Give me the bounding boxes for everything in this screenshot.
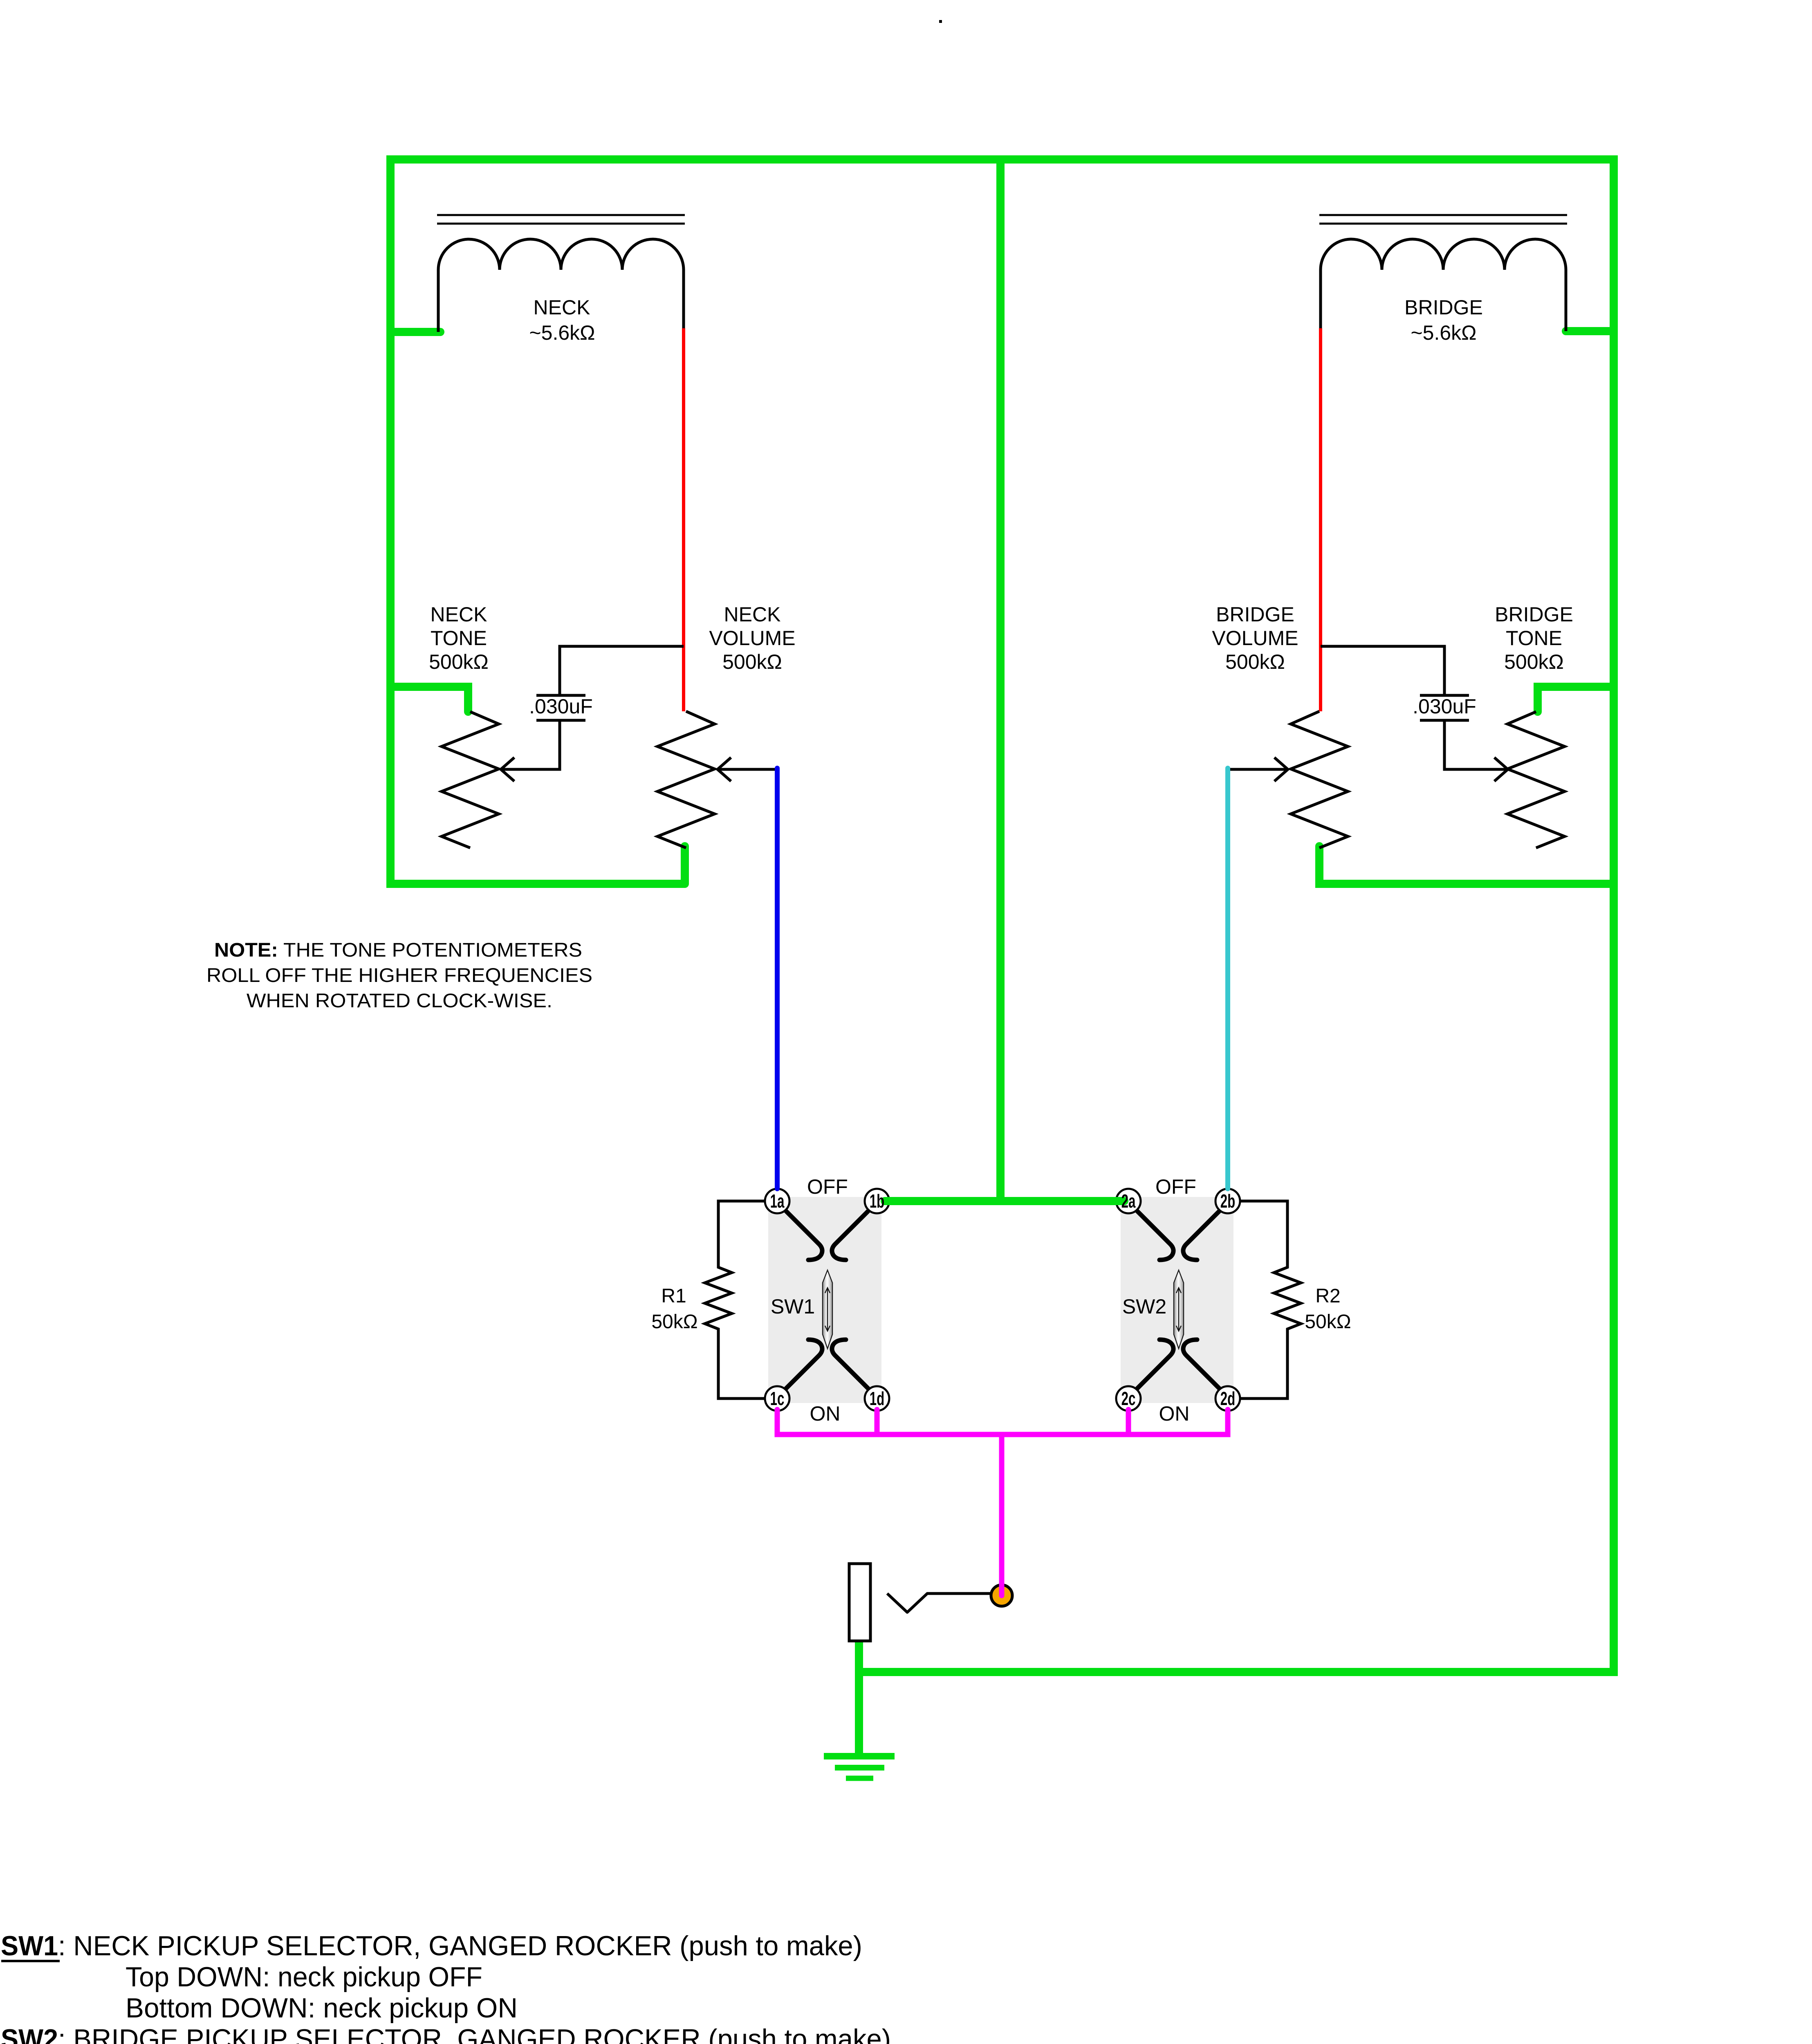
svg-text:Top DOWN: neck pickup OFF: Top DOWN: neck pickup OFF (126, 1961, 482, 1992)
svg-text:BRIDGE: BRIDGE (1404, 296, 1483, 319)
SW1 body (gray box) (768, 1197, 881, 1403)
switch function description text block (1, 1930, 891, 2044)
SW2 body (gray box) (1121, 1197, 1233, 1403)
stray dot artifact top center (939, 20, 942, 23)
svg-text:SW2: SW2 (1, 2024, 58, 2044)
wire 1d to hot bus (magenta) (875, 1410, 880, 1434)
svg-text:TONE: TONE (431, 627, 487, 650)
wire bridge pickup right lead to trunk (green stub) (1566, 327, 1614, 335)
SW2 terminal 2b (1215, 1189, 1240, 1213)
SW2 terminal 2c (1116, 1386, 1141, 1411)
svg-text:SW1: SW1 (771, 1295, 815, 1318)
capacitor C-bridge bottom wire to tone wiper (1444, 720, 1508, 769)
resistor R1 50k with connecting wires 1a-1c (705, 1201, 765, 1399)
wire bridge pickup hot lead (red) (1319, 328, 1322, 711)
svg-text:50kΩ: 50kΩ (651, 1311, 697, 1333)
wire center ground feed (green vertical to switch bus) (996, 159, 1005, 1201)
SW1 contact 1b (top-right finger) (832, 1211, 868, 1260)
svg-text:2c: 2c (1121, 1388, 1136, 1409)
capacitor C-neck plate 1 (536, 694, 585, 697)
SW1 terminal 1a (765, 1189, 789, 1213)
svg-text:NECK: NECK (724, 603, 781, 626)
svg-text:1d: 1d (870, 1388, 885, 1409)
svg-text:SW1: SW1 (1, 1930, 58, 1961)
svg-text:500kΩ: 500kΩ (429, 650, 489, 673)
svg-text:VOLUME: VOLUME (709, 627, 795, 650)
note about tone potentiometers (3 lines) (206, 939, 592, 1012)
output jack tip solder point (orange) (991, 1585, 1012, 1606)
wire neck volume bottom to ground bus (green stub) (681, 846, 689, 884)
svg-text:2b: 2b (1220, 1191, 1236, 1212)
svg-text:WHEN ROTATED CLOCK-WISE.: WHEN ROTATED CLOCK-WISE. (247, 990, 552, 1012)
wire bridge volume bottom to trunk (green elbow) (1319, 846, 1614, 884)
svg-text:NECK: NECK (431, 603, 487, 626)
svg-text:500kΩ: 500kΩ (722, 650, 782, 673)
svg-text:NOTE: THE TONE POTENTIOMETERS: NOTE: THE TONE POTENTIOMETERS (214, 939, 582, 961)
svg-text:VOLUME: VOLUME (1212, 627, 1298, 650)
resistor R2 50k with connecting wires 2b-2d (1240, 1201, 1301, 1399)
SW1 rocker needle (823, 1270, 832, 1349)
SW2 terminal 2d (1215, 1386, 1240, 1411)
inductor BRIDGE pickup coil (1321, 239, 1566, 331)
SW1 terminal 1d (865, 1386, 889, 1411)
svg-text:OFF: OFF (807, 1175, 848, 1198)
svg-text:R2: R2 (1315, 1285, 1340, 1307)
svg-text:TONE: TONE (1506, 627, 1562, 650)
wire bridge volume wiper to 2b (cyan) (1225, 768, 1230, 1189)
capacitor C-neck plate 2 (536, 719, 585, 722)
potentiometer NECK VOLUME 500k (zigzag) (657, 711, 715, 848)
svg-text:R1: R1 (661, 1285, 686, 1307)
svg-text:500kΩ: 500kΩ (1225, 650, 1285, 673)
ground symbol bar 2 (835, 1765, 884, 1771)
capacitor C-bridge plate 2 (1420, 719, 1469, 722)
ground symbol bar 1 (824, 1753, 895, 1759)
svg-text:ON: ON (810, 1402, 841, 1425)
BRIDGE pickup core line 1 (1319, 214, 1567, 216)
SW1 contact 1a (top-left finger) (786, 1211, 822, 1260)
SW2 terminal 2a (1116, 1189, 1141, 1213)
wire neck pickup hot lead (red) (682, 328, 685, 711)
NECK pickup core line 2 (437, 223, 685, 225)
ground symbol bar 3 (846, 1776, 873, 1781)
SW1 contact 1d (bottom-right finger) (832, 1340, 868, 1388)
svg-text:Bottom DOWN: neck pickup ON: Bottom DOWN: neck pickup ON (126, 1992, 518, 2024)
SW1 contact 1c (bottom-left finger) (786, 1340, 822, 1388)
potentiometer BRIDGE TONE 500k (zigzag) (1507, 712, 1565, 848)
svg-text:.030uF: .030uF (1413, 695, 1476, 718)
svg-text:ROLL OFF THE HIGHER FREQUENCIE: ROLL OFF THE HIGHER FREQUENCIES (206, 965, 592, 986)
wire neck tone top to trunk (green elbow) (390, 687, 468, 712)
svg-text:1b: 1b (870, 1191, 885, 1212)
wire neck volume wiper to 1a (blue) (775, 768, 780, 1189)
wire switch bus 1b to 2a (green) (885, 1197, 1124, 1205)
capacitor C-bridge plate 1 (1420, 694, 1469, 697)
potentiometer NECK TONE 500k (zigzag) (442, 712, 499, 848)
output jack sleeve rectangle (849, 1564, 870, 1641)
svg-text:2a: 2a (1121, 1191, 1136, 1212)
wire jack sleeve to ground symbol (green) (855, 1641, 863, 1756)
SW2 contact 2b (top-right finger) (1183, 1211, 1219, 1260)
SW1 terminal 1c (765, 1386, 789, 1411)
svg-text:1c: 1c (770, 1388, 785, 1409)
inductor NECK pickup coil (438, 239, 684, 332)
svg-text:ON: ON (1159, 1402, 1190, 1425)
svg-text:2d: 2d (1220, 1388, 1236, 1409)
SW2 contact 2c (bottom-left finger) (1137, 1340, 1173, 1388)
SW2 rocker needle (1174, 1270, 1184, 1349)
svg-text:SW2: SW2 (1122, 1295, 1166, 1318)
svg-text:.030uF: .030uF (529, 695, 593, 718)
wire ground-bus main loop (green): left trunk, top run, right trunk, jack bus (390, 159, 1614, 1672)
svg-text:50kΩ: 50kΩ (1305, 1311, 1351, 1333)
wire bridge tone top to trunk (green elbow) (1538, 687, 1614, 712)
NECK TONE wiper arrowhead (501, 758, 514, 781)
wire hot bus 1c to 2d (magenta) (777, 1410, 1228, 1434)
NECK pickup core line 1 (437, 214, 685, 216)
wire 2c to hot bus (magenta) (1126, 1410, 1131, 1434)
BRIDGE VOLUME wiper arrowhead (1274, 758, 1288, 781)
wire hot bus to jack tip (magenta) (999, 1434, 1005, 1596)
BRIDGE VOLUME wiper wire (1228, 768, 1288, 771)
BRIDGE pickup core line 2 (1319, 223, 1567, 225)
capacitor C-neck bottom wire to tone wiper (501, 720, 560, 769)
SW2 contact 2d (bottom-right finger) (1183, 1340, 1219, 1388)
SW1 terminal 1b (865, 1189, 889, 1213)
svg-text:BRIDGE: BRIDGE (1216, 603, 1294, 626)
output jack tip contact (887, 1594, 992, 1612)
svg-text:BRIDGE: BRIDGE (1495, 603, 1573, 626)
svg-text:~5.6kΩ: ~5.6kΩ (1411, 321, 1476, 344)
wire neck pickup left lead to trunk (green stub) (390, 328, 440, 336)
svg-text:OFF: OFF (1155, 1175, 1196, 1198)
svg-text:NECK: NECK (534, 296, 590, 319)
NECK VOLUME wiper wire (718, 768, 777, 771)
capacitor C-neck .030uF top wire (560, 646, 684, 695)
BRIDGE TONE wiper arrowhead (1494, 758, 1508, 781)
SW2 contact 2a (top-left finger) (1137, 1211, 1173, 1260)
capacitor C-bridge .030uF top wire (1321, 646, 1444, 695)
SW1 underline (1, 1960, 60, 1962)
potentiometer BRIDGE VOLUME 500k (zigzag) (1291, 711, 1348, 848)
svg-text:~5.6kΩ: ~5.6kΩ (529, 321, 595, 344)
NECK VOLUME wiper arrowhead (718, 758, 731, 781)
svg-text:: BRIDGE PICKUP SELECTOR, GANG: : BRIDGE PICKUP SELECTOR, GANGED ROCKER … (58, 2024, 891, 2044)
svg-text:1a: 1a (770, 1191, 785, 1212)
svg-text:: NECK PICKUP SELECTOR, GANGED: : NECK PICKUP SELECTOR, GANGED ROCKER (p… (58, 1930, 862, 1961)
svg-text:500kΩ: 500kΩ (1504, 650, 1564, 673)
